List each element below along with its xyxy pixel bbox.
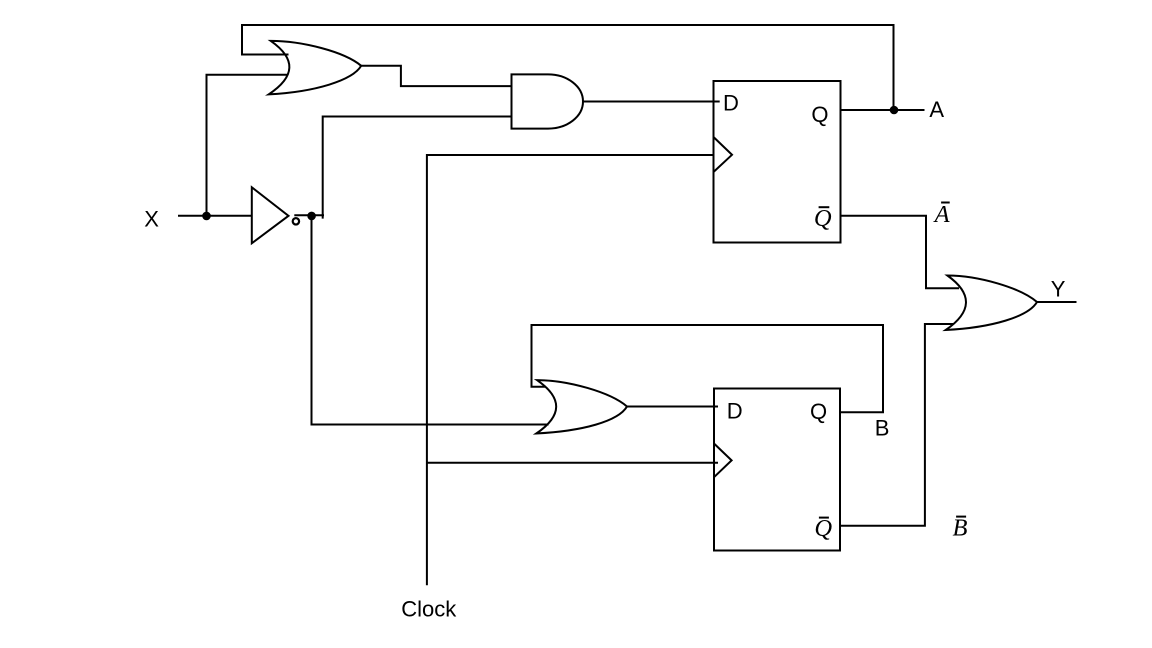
svg-text:B: B [875, 416, 890, 441]
svg-text:Q: Q [811, 102, 828, 127]
svg-text:Y: Y [1051, 276, 1066, 301]
svg-text:Q: Q [814, 515, 832, 542]
svg-text:X: X [144, 206, 159, 231]
svg-text:Clock: Clock [401, 597, 457, 622]
svg-text:D: D [727, 399, 743, 424]
svg-text:Q: Q [810, 399, 827, 424]
svg-text:A: A [929, 97, 944, 122]
svg-text:A: A [933, 201, 951, 228]
svg-text:D: D [723, 91, 739, 116]
svg-text:Q: Q [814, 205, 832, 232]
svg-text:B: B [953, 515, 968, 542]
